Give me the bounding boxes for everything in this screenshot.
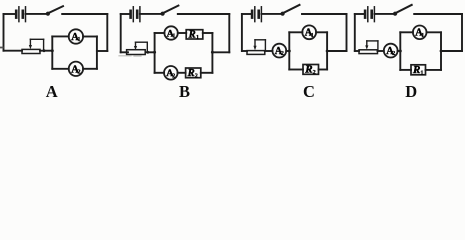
wire A top branch left: [52, 35, 68, 37]
rheostat (circuit C): [247, 40, 265, 55]
wire C ammeter-to-node: [286, 50, 289, 52]
battery A: [16, 7, 25, 22]
svg-text:A: A: [46, 82, 58, 101]
switch S (circuit B): [161, 6, 179, 16]
wire B bottom branch mid: [178, 72, 186, 74]
wire C right rail: [346, 14, 348, 51]
wire D left rail: [354, 14, 356, 51]
wire D rheostat-to-ammeter: [378, 50, 384, 52]
svg-text:C: C: [303, 82, 315, 101]
wire C block right vertical: [326, 32, 328, 69]
junction slider A: [43, 49, 46, 52]
wire A main bottom-left: [4, 50, 23, 52]
svg-text:R: R: [304, 64, 312, 76]
wire B right rail: [228, 14, 230, 52]
wire D top branch left: [400, 31, 413, 33]
wire C bottom branch left: [289, 69, 303, 71]
wire B rheostat-to-node: [146, 51, 155, 53]
svg-text:2: 2: [313, 69, 316, 76]
wire D ammeter-to-node: [398, 50, 401, 52]
wire C right stub: [327, 50, 346, 52]
switch S (circuit D): [393, 5, 412, 16]
svg-text:R: R: [412, 64, 420, 76]
wire C rheostat-to-ammeter: [265, 50, 273, 52]
resistor R2 (circuit C): [303, 64, 319, 77]
node B-right: [211, 51, 214, 54]
ammeter A2 (circuit B): [164, 66, 178, 80]
svg-text:B: B: [179, 82, 190, 101]
svg-text:1: 1: [172, 34, 175, 40]
resistor R1 (circuit B): [186, 30, 203, 42]
wire A battery-to-switch: [26, 13, 47, 15]
wire A switch-to-corner: [62, 13, 107, 15]
wire C bottom branch right: [319, 69, 328, 71]
wire B block left vertical: [154, 33, 156, 73]
node D-left: [399, 50, 402, 53]
wire C main bottom-left: [242, 50, 247, 52]
svg-text:1: 1: [196, 35, 199, 41]
wire A rheostat-to-node: [40, 50, 52, 52]
wire B battery-to-switch: [140, 13, 161, 15]
resistor R2 (circuit B): [186, 68, 201, 80]
wire D main bottom-left: [355, 50, 359, 52]
svg-text:R: R: [187, 68, 195, 79]
battery D: [365, 7, 374, 22]
switch S (circuit C): [281, 5, 300, 16]
wire C left rail: [241, 14, 243, 51]
switch S (circuit A): [46, 6, 63, 16]
wire C switch-to-corner: [302, 13, 347, 15]
ammeter A1 (circuit C): [302, 25, 316, 39]
scan artifact left edge: [0, 47, 3, 49]
wire B bottom branch left: [155, 72, 165, 74]
wire A right stub: [97, 50, 107, 52]
wire B top branch mid: [178, 32, 186, 34]
wire D block right vertical: [440, 32, 442, 70]
wire D top-left: [355, 13, 365, 15]
wire C top-left: [242, 13, 252, 15]
scan artifact smudge near B: [119, 55, 141, 57]
wire A right rail: [106, 14, 108, 51]
svg-text:2: 2: [172, 73, 175, 79]
wire B right stub: [212, 51, 229, 53]
wire A left rail: [3, 14, 5, 51]
node B-left: [153, 51, 156, 54]
wire B main bottom-left: [121, 51, 128, 53]
svg-text:1: 1: [421, 32, 424, 39]
wire C top branch left: [289, 31, 302, 33]
wire D right rail: [461, 14, 463, 51]
wire D block left vertical: [399, 32, 401, 70]
wire B top branch left: [155, 32, 165, 34]
wire D right stub: [441, 50, 462, 52]
ammeter A1 (circuit D): [413, 26, 427, 40]
rheostat (circuit D): [359, 41, 378, 54]
svg-text:1: 1: [420, 70, 423, 77]
wire A top branch right: [83, 36, 97, 38]
rheostat (circuit B): [127, 42, 148, 54]
wire B top-left: [121, 13, 130, 15]
battery B: [131, 7, 140, 22]
ammeter A2 (circuit A): [69, 62, 83, 76]
node A-left: [51, 49, 54, 52]
wire A block left vertical: [51, 36, 53, 68]
svg-text:2: 2: [281, 50, 284, 57]
wire C block left vertical: [288, 32, 290, 69]
resistor R1 (circuit D): [411, 64, 426, 77]
wire C top branch right: [316, 31, 327, 33]
wire A bottom branch right: [83, 68, 97, 70]
svg-text:2: 2: [195, 74, 198, 80]
wire B switch-to-corner: [178, 13, 230, 15]
svg-text:R: R: [188, 30, 196, 41]
wire A block right vertical: [96, 36, 98, 68]
svg-text:1: 1: [77, 36, 80, 43]
svg-text:2: 2: [392, 50, 395, 57]
ammeter A2 (circuit C, series): [272, 44, 286, 58]
ammeter A1 (circuit B): [164, 26, 177, 39]
wire A top-left: [4, 13, 16, 15]
wire C battery-to-switch: [261, 13, 281, 15]
wire D bottom branch right: [426, 69, 442, 71]
ammeter A1 (circuit A): [69, 29, 83, 43]
junction slider B: [146, 51, 149, 54]
wire A bottom branch left: [52, 68, 68, 70]
wire D switch-to-corner: [414, 13, 462, 15]
node C-right: [326, 50, 329, 53]
wire D battery-to-switch: [374, 13, 393, 15]
wire B block right vertical: [211, 33, 213, 73]
node D-right: [440, 50, 443, 53]
node C-left: [288, 50, 291, 53]
wire B top branch right: [203, 32, 213, 34]
svg-text:D: D: [405, 82, 417, 101]
battery C: [252, 7, 261, 22]
wire D bottom branch left: [400, 69, 411, 71]
rheostat (circuit A): [22, 39, 44, 53]
wire D top branch right: [427, 31, 442, 33]
wire B bottom branch right: [201, 72, 213, 74]
svg-text:1: 1: [311, 32, 314, 39]
svg-text:2: 2: [77, 69, 80, 76]
wire B left rail: [120, 14, 122, 52]
ammeter A2 (circuit D, series): [384, 44, 398, 58]
